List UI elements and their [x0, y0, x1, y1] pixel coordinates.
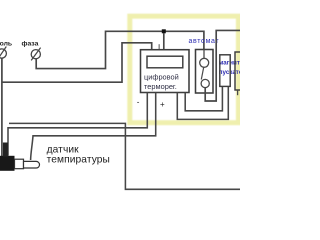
breaker QF1 box	[196, 50, 214, 94]
sensor cable thickening	[3, 143, 8, 157]
breaker internal stub top	[203, 50, 205, 59]
svg-text:+: +	[160, 100, 165, 109]
thermostat display window	[147, 56, 183, 68]
terminal X2 (фаза)	[31, 48, 40, 61]
wire: load line (left riser to bottom right)	[9, 123, 240, 189]
breaker top contact circle	[200, 58, 209, 67]
temperature sensor body	[0, 156, 15, 171]
starter contact box KM1.1	[235, 52, 242, 90]
thermostat U1 box (цифровой терморегулятор)	[141, 50, 190, 93]
wire: starter contact bottom stub	[237, 90, 239, 95]
wire: thermostat pin P3 to starter coil (outer U)	[177, 86, 228, 119]
wire: фаза terminal to breaker top	[36, 31, 204, 68]
faint stub at thermostat top	[158, 44, 160, 50]
svg-text:цифровой: цифровой	[144, 72, 179, 81]
wire: ноль branch to thermostat top	[2, 43, 152, 82]
svg-text:пускатель: пускатель	[219, 69, 240, 76]
sensor probe	[24, 161, 40, 168]
junction node (фаза / терморегулятор)	[162, 29, 166, 33]
wire: junction down to thermostat top pin	[163, 33, 165, 50]
breaker lever	[201, 67, 203, 79]
breaker bottom contact circle	[201, 79, 209, 87]
wire: thermostat pin P4 to starter coil (middle U)	[185, 86, 222, 111]
wire: breaker bottom loop up to top-right line	[205, 30, 240, 101]
svg-text:темпиратуры: темпиратуры	[47, 154, 110, 165]
svg-text:-: -	[137, 98, 140, 107]
wire: sensor lead 1 (body to thermostat pin P1)	[8, 93, 147, 156]
svg-text:фаза: фаза	[22, 40, 39, 47]
wire: ноль terminal down the left edge to sensor body	[1, 58, 3, 156]
svg-text:автомат: автомат	[189, 38, 220, 45]
wire: sensor lead 2 (probe to thermostat pin P2)	[31, 93, 156, 161]
starter coil box KM1	[220, 55, 230, 87]
svg-text:магнитный: магнитный	[219, 60, 240, 67]
svg-text:терморег.: терморег.	[144, 82, 177, 91]
sensor collar	[15, 159, 24, 169]
terminal X1 (ноль)	[0, 47, 6, 60]
highlight box (yellow marker around control gear)	[130, 16, 239, 123]
